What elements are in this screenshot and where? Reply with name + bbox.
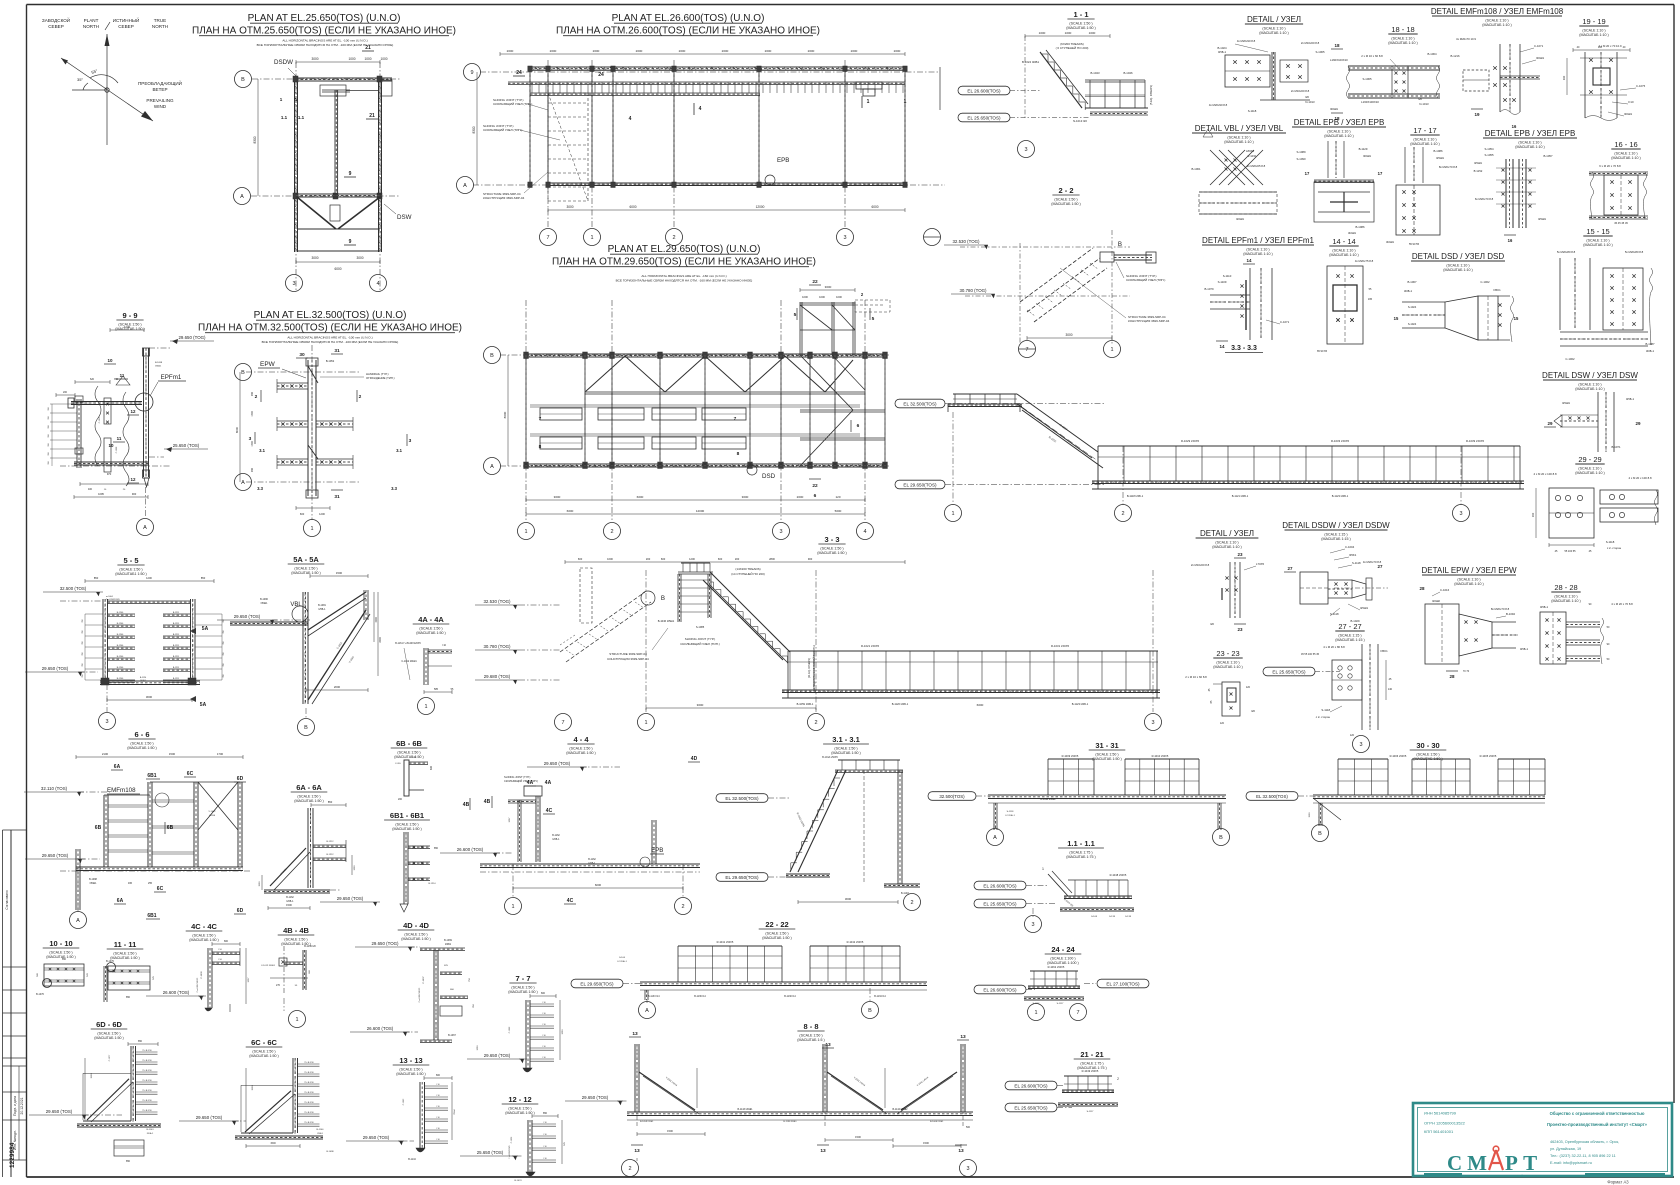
svg-text:850: 850 — [62, 958, 67, 961]
svg-text:330: 330 — [1562, 75, 1566, 80]
svg-text:PLAN AT EL.32.500(TOS) (U.N.O): PLAN AT EL.32.500(TOS) (U.N.O) — [254, 310, 407, 321]
svg-text:СКОЛЬЗЯЩИЙ УЗЕЛ (ТИП.): СКОЛЬЗЯЩИЙ УЗЕЛ (ТИП.) — [483, 128, 522, 132]
svg-text:1500: 1500 — [270, 1142, 276, 1145]
svg-text:I20Б-1: I20Б-1 — [147, 1133, 154, 1135]
svg-text:S-1118: S-1118 — [1248, 109, 1257, 113]
svg-text:13: 13 — [820, 1148, 826, 1154]
svg-text:Согласовано: Согласовано — [5, 890, 9, 909]
svg-text:2000: 2000 — [679, 49, 686, 53]
svg-text:ВЕТЕР: ВЕТЕР — [152, 87, 167, 92]
svg-text:B-1059 I20Б-1: B-1059 I20Б-1 — [797, 702, 814, 706]
svg-text:350x6: 350x6 — [454, 1108, 456, 1114]
svg-text:B-1066 I20Б1: B-1066 I20Б1 — [930, 1121, 944, 1123]
svg-text:(МАСШТАБ 1:10 ): (МАСШТАБ 1:10 ) — [1443, 268, 1472, 272]
svg-text:ПЛАН НА ОТМ.25.650(TOS) (ЕСЛИ: ПЛАН НА ОТМ.25.650(TOS) (ЕСЛИ НЕ УКАЗАНО… — [192, 26, 456, 37]
svg-text:190: 190 — [1531, 512, 1535, 517]
svg-text:6C: 6C — [157, 886, 164, 892]
svg-text:800: 800 — [436, 1074, 441, 1077]
svg-text:(SCALE 1:50 ): (SCALE 1:50 ) — [395, 822, 418, 826]
svg-text:S-139: S-139 — [1109, 916, 1116, 918]
svg-text:C-1012 I20Ш1: C-1012 I20Ш1 — [261, 965, 276, 967]
svg-text:(SCALE 1:75 ): (SCALE 1:75 ) — [1080, 1061, 1103, 1065]
svg-text:6000: 6000 — [595, 883, 602, 887]
svg-text:1500: 1500 — [252, 1085, 254, 1091]
svg-text:B-1211: B-1211 — [173, 612, 180, 614]
svg-text:B-1212: B-1212 — [326, 841, 334, 843]
svg-text:(SCALE 1:10 ): (SCALE 1:10 ) — [1227, 136, 1250, 140]
svg-text:(SCALE 1:10 ): (SCALE 1:10 ) — [1446, 264, 1469, 268]
svg-text:(SCALE 1:50 ): (SCALE 1:50 ) — [130, 741, 153, 745]
svg-text:B-1211: B-1211 — [173, 678, 180, 680]
svg-text:350: 350 — [48, 425, 50, 428]
svg-text:(МАСШТАБ 1:50 ): (МАСШТАБ 1:50 ) — [127, 746, 156, 750]
svg-text:6B: 6B — [167, 825, 174, 831]
svg-text:6 - 6: 6 - 6 — [134, 730, 149, 739]
svg-text:S-1118: S-1118 — [1352, 561, 1361, 565]
svg-text:13: 13 — [634, 1148, 640, 1154]
svg-text:L80X6: L80X6 — [1246, 149, 1255, 153]
svg-text:(SCALE 1:10 ): (SCALE 1:10 ) — [1578, 383, 1601, 387]
svg-text:DETAIL DSDW / УЗЕЛ DSDW: DETAIL DSDW / УЗЕЛ DSDW — [1282, 521, 1390, 530]
svg-text:(SCALE 1:15 ): (SCALE 1:15 ) — [1338, 634, 1361, 638]
svg-text:C-1036: C-1036 — [511, 1136, 513, 1143]
svg-text:5A - 5A: 5A - 5A — [293, 555, 319, 564]
svg-text:B-1067: B-1067 — [448, 1034, 456, 1037]
svg-text:EPFm1: EPFm1 — [161, 374, 182, 381]
svg-text:1500: 1500 — [259, 881, 261, 887]
svg-text:(МАСШТАБ 1:50 ): (МАСШТАБ 1:50 ) — [392, 827, 421, 831]
svg-text:EPB: EPB — [777, 157, 789, 164]
svg-text:I25Ш1: I25Ш1 — [1562, 401, 1570, 405]
svg-text:1500: 1500 — [169, 752, 176, 756]
svg-text:462403, Оренбургская область,: 462403, Оренбургская область, г. Орск, — [1550, 1140, 1619, 1144]
svg-text:EL 25.650(TOS): EL 25.650(TOS) — [983, 901, 1017, 906]
svg-text:C-1002: C-1002 — [1565, 357, 1575, 361]
svg-text:(SCALE 1:50 ): (SCALE 1:50 ) — [297, 794, 320, 798]
svg-text:DETAIL DSD / УЗЕЛ DSD: DETAIL DSD / УЗЕЛ DSD — [1412, 252, 1505, 261]
svg-text:L90X6: L90X6 — [209, 815, 216, 817]
svg-text:(SCALE 1:50 ): (SCALE 1:50 ) — [1095, 752, 1118, 756]
svg-text:I20: I20 — [1305, 95, 1309, 99]
border frame — [27, 4, 1675, 6]
svg-text:Г1б B-1210: Г1б B-1210 — [142, 1050, 151, 1052]
svg-text:EL 29.650(TOS): EL 29.650(TOS) — [903, 482, 937, 487]
svg-text:S-1085: S-1085 — [696, 625, 705, 629]
svg-text:Г-об120Х120Х5: Г-об120Х120Х5 — [197, 977, 199, 992]
svg-text:I25Ш1: I25Ш1 — [1436, 156, 1444, 160]
svg-text:29.650 (TOS): 29.650 (TOS) — [337, 896, 364, 901]
svg-text:EL 26.600(TOS): EL 26.600(TOS) — [983, 883, 1017, 888]
svg-text:16 - 16: 16 - 16 — [1614, 140, 1637, 149]
svg-text:R-1021 L50X5: R-1021 L50X5 — [861, 644, 879, 648]
svg-text:3000: 3000 — [697, 703, 704, 707]
svg-text:7: 7 — [1076, 1010, 1079, 1016]
svg-text:2 x M 16 x 60 8.8: 2 x M 16 x 60 8.8 — [1185, 675, 1207, 679]
svg-text:8300: 8300 — [253, 136, 257, 143]
svg-text:C-1071: C-1071 — [1280, 320, 1290, 324]
svg-text:I 10: I 10 — [442, 644, 447, 647]
svg-text:A: A — [463, 183, 467, 189]
svg-text:2x M16x60 8.8: 2x M16x60 8.8 — [1191, 563, 1210, 567]
svg-text:I20Б-1: I20Б-1 — [588, 862, 596, 865]
svg-text:Г1б B-1210: Г1б B-1210 — [142, 1080, 151, 1082]
svg-text:1: 1 — [310, 526, 313, 532]
svg-text:I25Б-1: I25Б-1 — [1218, 50, 1227, 54]
svg-text:6B1: 6B1 — [147, 773, 156, 779]
svg-text:C-1075: C-1075 — [1636, 84, 1646, 88]
svg-text:6x M20x70 8.8: 6x M20x70 8.8 — [1475, 197, 1494, 201]
svg-text:2: 2 — [681, 904, 684, 910]
svg-text:B-1046: B-1046 — [1123, 71, 1132, 75]
svg-text:4D: 4D — [691, 756, 698, 762]
svg-text:B-1211: B-1211 — [173, 634, 180, 636]
svg-text:B-1046 I25Ш1: B-1046 I25Ш1 — [658, 619, 675, 623]
svg-text:45 55 100 55 45: 45 55 100 55 45 — [1301, 653, 1320, 656]
svg-text:R-1005 L50X5: R-1005 L50X5 — [1480, 754, 1497, 758]
svg-text:ул. Дунайская, 19: ул. Дунайская, 19 — [1550, 1147, 1581, 1151]
svg-text:10: 10 — [107, 358, 113, 363]
svg-text:2000: 2000 — [851, 49, 858, 53]
svg-text:29.650 (TOS): 29.650 (TOS) — [582, 1095, 609, 1100]
svg-text:(МАСШТАБ 1:10 ): (МАСШТАБ 1:10 ) — [1212, 545, 1241, 549]
svg-text:970: 970 — [107, 472, 112, 476]
svg-text:19: 19 — [1474, 112, 1480, 117]
svg-text:(11 ПОДСТУПЕНКОВ РАВНОЙ ВЫСОТЫ: (11 ПОДСТУПЕНКОВ РАВНОЙ ВЫСОТЫ) — [813, 645, 816, 692]
svg-text:S-1118: S-1118 — [1330, 612, 1339, 616]
svg-text:65 90 65: 65 90 65 — [1317, 349, 1328, 353]
svg-text:B: B — [661, 595, 665, 602]
svg-text:2: 2 — [1117, 1077, 1119, 1081]
svg-text:ВСЕ ГОРИЗОНТАЛЬНЫЕ СВЯЗИ НАХОД: ВСЕ ГОРИЗОНТАЛЬНЫЕ СВЯЗИ НАХОДЯТСЯ НА ОТ… — [257, 43, 394, 47]
svg-text:(МАСШТАБ 1:10 ): (МАСШТАБ 1:10 ) — [1324, 134, 1353, 138]
svg-text:45 45 45 45: 45 45 45 45 — [1614, 221, 1628, 225]
svg-text:B-1057: B-1057 — [1543, 154, 1552, 158]
svg-text:L160X100X10: L160X100X10 — [1330, 58, 1348, 62]
svg-text:S-1118: S-1118 — [1321, 708, 1330, 712]
svg-text:I 10: I 10 — [543, 1122, 546, 1124]
svg-text:3000: 3000 — [311, 57, 318, 61]
svg-text:B-1129: B-1129 — [1359, 147, 1368, 151]
svg-text:1237: 1237 — [248, 977, 250, 983]
svg-text:1000: 1000 — [819, 295, 825, 299]
svg-text:2000: 2000 — [808, 49, 815, 53]
svg-text:2: 2 — [628, 1166, 631, 1172]
svg-text:(SCALE 1:50 ): (SCALE 1:50 ) — [119, 567, 142, 571]
svg-text:ПЛАН НА ОТМ.29.650(TOS) (ЕСЛИ: ПЛАН НА ОТМ.29.650(TOS) (ЕСЛИ НЕ УКАЗАНО… — [552, 257, 816, 268]
svg-text:14: 14 — [1246, 258, 1252, 263]
svg-text:8000: 8000 — [235, 426, 239, 433]
svg-text:4x M20x90 8.8: 4x M20x90 8.8 — [1237, 39, 1256, 43]
svg-text:R-1031 L50X5: R-1031 L50X5 — [1051, 644, 1069, 648]
svg-text:B-1059 I20Б1: B-1059 I20Б1 — [640, 1121, 654, 1123]
svg-text:1: 1 — [644, 720, 647, 726]
svg-text:B-1043: B-1043 — [1090, 71, 1099, 75]
svg-text:29: 29 — [1635, 421, 1641, 426]
svg-text:1095: 1095 — [98, 492, 104, 496]
svg-text:(МАСШТАБ 1:50 ): (МАСШТАБ 1:50 ) — [416, 631, 445, 635]
svg-text:6B: 6B — [95, 825, 102, 831]
svg-text:A: A — [993, 835, 997, 841]
svg-text:5A: 5A — [200, 702, 207, 708]
svg-text:B-1079: B-1079 — [1204, 287, 1213, 291]
svg-text:6B1 - 6B1: 6B1 - 6B1 — [390, 811, 424, 820]
svg-text:3: 3 — [409, 438, 412, 444]
svg-text:(SCALE 1:50 ): (SCALE 1:50 ) — [799, 1033, 822, 1037]
svg-text:I40Б-1: I40Б-1 — [1646, 349, 1655, 353]
svg-text:4C: 4C — [546, 808, 553, 814]
svg-text:(МАСШТАБ 1:10 ): (МАСШТАБ 1:10 ) — [1583, 243, 1612, 247]
svg-text:DETAIL EMFm108 / УЗЕЛ EMFm108: DETAIL EMFm108 / УЗЕЛ EMFm108 — [1431, 7, 1564, 16]
svg-text:5: 5 — [794, 312, 797, 318]
svg-text:B-1206: B-1206 — [117, 667, 124, 669]
svg-text:(МАСШТАБ 1:10 ): (МАСШТАБ 1:10 ) — [1551, 599, 1580, 603]
svg-text:EL 32.500(TOS): EL 32.500(TOS) — [1256, 794, 1288, 799]
svg-text:DETAIL VBL / УЗЕЛ VBL: DETAIL VBL / УЗЕЛ VBL — [1195, 124, 1284, 133]
svg-text:1: 1 — [524, 529, 527, 535]
svg-text:B-1069: B-1069 — [444, 939, 452, 942]
svg-text:3000: 3000 — [311, 256, 318, 260]
svg-text:EL 25.650(TOS): EL 25.650(TOS) — [967, 115, 1001, 120]
svg-text:12: 12 — [130, 477, 136, 482]
svg-text:4B: 4B — [484, 799, 491, 805]
svg-text:DETAIL DSW / УЗЕЛ DSW: DETAIL DSW / УЗЕЛ DSW — [1542, 371, 1638, 380]
svg-text:1500: 1500 — [855, 1135, 861, 1139]
svg-text:S-1024: S-1024 — [1408, 305, 1417, 309]
svg-text:350: 350 — [48, 416, 50, 419]
svg-text:I35K1: I35K1 — [1349, 553, 1357, 557]
svg-text:800: 800 — [224, 940, 229, 943]
svg-text:12000: 12000 — [756, 205, 765, 209]
svg-text:600: 600 — [300, 512, 305, 516]
svg-text:Г1б B-1210: Г1б B-1210 — [304, 1092, 313, 1094]
svg-text:ПЛАН НА ОТМ.26.600(TOS) (ЕСЛИ: ПЛАН НА ОТМ.26.600(TOS) (ЕСЛИ НЕ УКАЗАНО… — [556, 26, 820, 37]
svg-text:4A: 4A — [545, 780, 552, 786]
svg-text:8: 8 — [737, 451, 740, 457]
svg-text:3.3 - 3.3: 3.3 - 3.3 — [1231, 345, 1257, 352]
svg-text:Общество с ограниченной ответс: Общество с ограниченной ответственностью — [1550, 1111, 1645, 1116]
svg-text:PLAN AT EL.26.600(TOS) (U.N.O): PLAN AT EL.26.600(TOS) (U.N.O) — [612, 13, 765, 24]
svg-text:7: 7 — [734, 416, 737, 422]
svg-text:3000: 3000 — [1065, 333, 1072, 337]
svg-text:Подп. и дата: Подп. и дата — [13, 1096, 17, 1116]
svg-text:400: 400 — [88, 488, 93, 491]
svg-text:EL 26.600(TOS): EL 26.600(TOS) — [1014, 1083, 1048, 1088]
svg-text:I25Б-1: I25Б-1 — [1540, 605, 1549, 609]
svg-text:(МАСШТАБ 1:100 ): (МАСШТАБ 1:100 ) — [1047, 961, 1078, 965]
svg-text:13: 13 — [958, 1148, 964, 1154]
svg-text:S-1065: S-1065 — [1362, 77, 1371, 81]
svg-text:I25Б-1: I25Б-1 — [1626, 397, 1635, 401]
svg-text:(SCALE 1:10 ): (SCALE 1:10 ) — [1413, 138, 1436, 142]
svg-text:I-2 I20Б-1: I-2 I20Б-1 — [1005, 815, 1015, 817]
svg-text:2: 2 — [1121, 511, 1124, 517]
svg-text:1.1: 1.1 — [281, 115, 288, 120]
svg-text:S-106: S-106 — [619, 957, 626, 959]
svg-text:с 2- сторон: с 2- сторон — [1316, 715, 1331, 719]
svg-text:1000: 1000 — [1089, 31, 1096, 35]
svg-text:13: 13 — [825, 1042, 831, 1048]
svg-text:600: 600 — [718, 557, 723, 561]
svg-text:I20Б-1: I20Б-1 — [286, 900, 294, 903]
svg-text:СКОЛЬЗЯЩИЙ УЗЕЛ (ТИП.): СКОЛЬЗЯЩИЙ УЗЕЛ (ТИП.) — [504, 779, 538, 783]
svg-text:32.110 (TOS): 32.110 (TOS) — [41, 786, 68, 791]
svg-text:(14X200 TREADS): (14X200 TREADS) — [735, 567, 760, 571]
svg-text:850: 850 — [126, 996, 131, 999]
svg-text:32.500 (TOS): 32.500 (TOS) — [60, 586, 87, 591]
svg-text:16: 16 — [1512, 124, 1517, 129]
svg-text:B-1211: B-1211 — [173, 656, 180, 658]
svg-text:4B: 4B — [463, 802, 470, 808]
svg-text:23 - 23: 23 - 23 — [1216, 649, 1239, 658]
svg-text:N-1013: N-1013 — [1419, 102, 1429, 106]
svg-text:1000: 1000 — [364, 57, 371, 61]
svg-text:ПРЕОБЛАДАЮЩИЙ: ПРЕОБЛАДАЮЩИЙ — [138, 79, 182, 86]
svg-text:850: 850 — [543, 1112, 548, 1115]
svg-text:255: 255 — [148, 882, 153, 885]
svg-text:7 - 7: 7 - 7 — [515, 974, 530, 983]
svg-text:2: 2 — [610, 529, 613, 535]
svg-text:4 x M 20 x 70 8.8: 4 x M 20 x 70 8.8 — [1611, 602, 1633, 606]
svg-text:495: 495 — [128, 882, 133, 885]
svg-text:A: A — [143, 525, 147, 531]
svg-text:350: 350 — [114, 378, 119, 381]
svg-text:1000: 1000 — [836, 295, 842, 299]
svg-text:(SCALE 1:10 ): (SCALE 1:10 ) — [1262, 27, 1285, 31]
svg-text:PLAN AT EL.25.650(TOS) (U.N.O): PLAN AT EL.25.650(TOS) (U.N.O) — [248, 13, 401, 24]
svg-text:РТ: РТ — [1505, 1151, 1542, 1175]
svg-text:620: 620 — [90, 378, 95, 381]
svg-text:B-1098: B-1098 — [326, 1151, 334, 1153]
svg-text:(SCALE 1:50 ): (SCALE 1:50 ) — [419, 626, 442, 630]
svg-text:B-1206: B-1206 — [117, 678, 124, 680]
svg-text:1.1 - 1.1: 1.1 - 1.1 — [1067, 839, 1095, 848]
svg-text:(МАСШТАБ 1:50 ): (МАСШТАБ 1:50 ) — [817, 551, 846, 555]
svg-text:32.530 (TOG): 32.530 (TOG) — [952, 239, 980, 244]
svg-text:I40Б-1: I40Б-1 — [1404, 289, 1413, 293]
svg-text:6A: 6A — [117, 898, 124, 904]
svg-text:C-1063: C-1063 — [403, 1098, 405, 1105]
svg-text:(SCALE 1:10 ): (SCALE 1:10 ) — [1518, 141, 1541, 145]
svg-text:EMFm108: EMFm108 — [107, 787, 136, 794]
svg-text:17 - 17: 17 - 17 — [1413, 126, 1436, 135]
svg-text:100: 100 — [1598, 46, 1603, 49]
svg-text:(SCALE 1:10 ): (SCALE 1:10 ) — [1586, 239, 1609, 243]
svg-text:350: 350 — [48, 434, 50, 437]
svg-text:1500: 1500 — [1309, 812, 1311, 818]
svg-text:5 - 5: 5 - 5 — [123, 556, 138, 565]
svg-text:(МАСШТАБ 1:50 ): (МАСШТАБ 1:50 ) — [396, 1072, 425, 1076]
svg-text:1500: 1500 — [286, 903, 292, 907]
svg-text:I20Б1: I20Б1 — [317, 1133, 323, 1135]
svg-text:B-1161 Г-об120Х120Х5: B-1161 Г-об120Х120Х5 — [395, 642, 421, 645]
svg-text:C-1015: C-1015 — [99, 416, 101, 423]
svg-text:55 100 55: 55 100 55 — [1564, 550, 1576, 553]
svg-text:1: 1 — [590, 235, 593, 241]
svg-text:(МАСШТАБ 1:10 ): (МАСШТАБ 1:10 ) — [1243, 252, 1272, 256]
svg-text:I 10: I 10 — [543, 1146, 546, 1148]
svg-text:B-1133 I14: B-1133 I14 — [648, 995, 660, 998]
svg-text:(МАСШТАБ 1:50 ): (МАСШТАБ 1:50 ) — [566, 751, 595, 755]
plan 29.650 drawing — [500, 354, 890, 356]
svg-text:I30Ш1: I30Ш1 — [1624, 112, 1632, 116]
svg-text:B-1067: B-1067 — [1407, 280, 1416, 284]
svg-text:СКОЛЬЗЯЩИЙ УЗЕЛ (ТИП.): СКОЛЬЗЯЩИЙ УЗЕЛ (ТИП.) — [493, 102, 532, 106]
svg-text:4: 4 — [863, 529, 866, 535]
svg-text:(МАСШТАБ 1:10 ): (МАСШТАБ 1:10 ) — [1213, 665, 1242, 669]
svg-text:I 10: I 10 — [542, 1057, 545, 1059]
svg-text:4A - 4A: 4A - 4A — [418, 615, 444, 624]
svg-text:C-1062: C-1062 — [509, 1026, 511, 1033]
svg-text:Г-об120Х120Х5: Г-об120Х120Х5 — [106, 599, 120, 601]
svg-text:6: 6 — [814, 493, 817, 499]
svg-text:EPW: EPW — [260, 361, 276, 368]
svg-text:(МАСШТАБ 1:5 ): (МАСШТАБ 1:5 ) — [797, 1038, 824, 1042]
svg-text:R-1042 L50X5: R-1042 L50X5 — [847, 940, 864, 944]
svg-text:Г1б B-1210: Г1б B-1210 — [142, 1060, 151, 1062]
svg-text:(МАСШТАБ 1:10 ): (МАСШТАБ 1:10 ) — [1515, 145, 1544, 149]
svg-text:6C - 6C: 6C - 6C — [251, 1038, 277, 1047]
svg-text:21: 21 — [369, 113, 375, 119]
svg-text:6C: 6C — [187, 771, 194, 777]
svg-text:10: 10 — [108, 443, 114, 448]
svg-text:4x M20x75 8.8: 4x M20x75 8.8 — [1355, 259, 1374, 263]
svg-text:I25Б-1: I25Б-1 — [318, 608, 326, 611]
svg-text:29.650 (TOS): 29.650 (TOS) — [42, 666, 69, 671]
svg-text:3: 3 — [105, 719, 108, 725]
svg-text:B-1212: B-1212 — [326, 854, 334, 856]
svg-text:I30Ш1: I30Ш1 — [1330, 107, 1338, 111]
svg-text:1500: 1500 — [375, 617, 378, 623]
svg-text:Г1б B-1210: Г1б B-1210 — [304, 1072, 313, 1074]
svg-text:ИСТИННЫЙ: ИСТИННЫЙ — [113, 16, 140, 23]
svg-text:2000: 2000 — [636, 49, 643, 53]
svg-text:350: 350 — [48, 443, 50, 446]
svg-text:12000: 12000 — [696, 509, 705, 513]
svg-text:R-1033 L50X5: R-1033 L50X5 — [1331, 439, 1349, 443]
svg-text:1000: 1000 — [380, 57, 387, 61]
svg-text:17: 17 — [1305, 171, 1310, 176]
svg-text:(14 СТУПЕНЕЙ ПО 200): (14 СТУПЕНЕЙ ПО 200) — [731, 572, 765, 576]
svg-text:850: 850 — [94, 576, 99, 580]
svg-text:6D - 6D: 6D - 6D — [96, 1020, 122, 1029]
svg-text:S-1090: S-1090 — [1296, 157, 1305, 161]
svg-text:1250: 1250 — [562, 1029, 564, 1035]
svg-text:(МАСШТАБ 1:50 ): (МАСШТАБ 1:50 ) — [394, 755, 423, 759]
svg-text:4: 4 — [629, 116, 632, 122]
svg-text:I20Ш2: I20Ш2 — [1432, 599, 1440, 603]
svg-text:R-1009 L50X5: R-1009 L50X5 — [1062, 754, 1079, 758]
svg-text:(SCALE 1:50 ): (SCALE 1:50 ) — [113, 951, 136, 955]
svg-text:B-1052: B-1052 — [326, 359, 335, 363]
svg-text:16: 16 — [1508, 238, 1513, 243]
svg-text:(МАСШТАБ 1:10 ): (МАСШТАБ 1:10 ) — [1259, 31, 1288, 35]
svg-text:(МАСШТАБ 1:50 ): (МАСШТАБ 1:50 ) — [294, 799, 323, 803]
svg-text:ВСЕ ГОРИЗОНТАЛЬНЫЕ СВЯЗИ НАХОД: ВСЕ ГОРИЗОНТАЛЬНЫЕ СВЯЗИ НАХОДЯТСЯ НА ОТ… — [262, 340, 399, 344]
svg-text:29 - 29: 29 - 29 — [1578, 455, 1601, 464]
svg-text:26.600 (TOS): 26.600 (TOS) — [457, 847, 484, 852]
svg-text:V-1031: V-1031 — [1248, 154, 1257, 158]
svg-text:29.680 (TOS): 29.680 (TOS) — [484, 674, 511, 679]
svg-text:(SCALE 1:50 ): (SCALE 1:50 ) — [294, 566, 317, 570]
svg-text:B: B — [868, 1008, 872, 1014]
svg-text:2: 2 — [672, 235, 675, 241]
svg-text:1: 1 — [424, 704, 427, 710]
svg-text:3: 3 — [966, 1166, 969, 1172]
svg-text:I40Ш1: I40Ш1 — [1348, 231, 1356, 235]
svg-text:850: 850 — [138, 1040, 143, 1043]
svg-text:3.1: 3.1 — [259, 448, 265, 453]
svg-text:B-1214: B-1214 — [428, 883, 436, 885]
